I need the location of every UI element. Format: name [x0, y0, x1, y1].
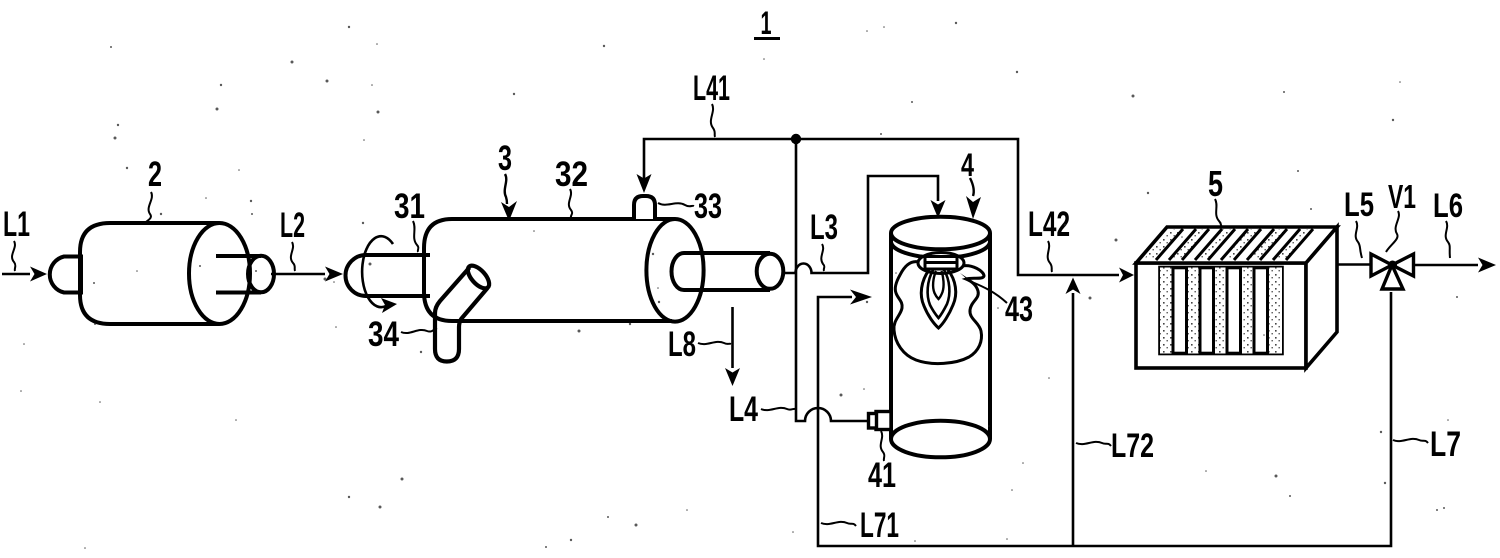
converter 3 outlet pipe: [671, 253, 783, 290]
svg-text:L3: L3: [810, 208, 838, 247]
flame holder blob: [894, 261, 984, 364]
label L6: [1433, 187, 1463, 258]
burner 4: [891, 217, 990, 458]
svg-text:33: 33: [694, 187, 722, 226]
svg-text:32: 32: [555, 155, 588, 194]
svg-text:L8: L8: [668, 325, 696, 364]
svg-text:L7: L7: [1430, 425, 1461, 464]
wire L6 outlet arrow: [1414, 264, 1479, 267]
svg-text:L41: L41: [693, 69, 730, 108]
label 4: [961, 147, 981, 219]
svg-text:L4: L4: [729, 390, 758, 429]
flame middle: [928, 270, 950, 318]
label L2: [280, 206, 305, 271]
filter 5 channel shading front: [1160, 268, 1282, 354]
svg-text:L42: L42: [1028, 205, 1070, 244]
label L1: [3, 205, 30, 271]
label L4: [729, 390, 796, 429]
filter 5 box: [1136, 227, 1337, 368]
label V1: [1386, 178, 1416, 252]
arrow into filter 5: [1119, 268, 1134, 283]
wire L2 arrow: [271, 273, 325, 276]
label 33: [658, 187, 722, 226]
junction node on L41: [791, 134, 801, 144]
svg-text:L71: L71: [860, 506, 899, 545]
wire L8 down arrow: [731, 307, 734, 368]
svg-text:31: 31: [394, 187, 425, 226]
filter 5 channel shading top: [1143, 229, 1313, 260]
svg-text:34: 34: [368, 315, 399, 354]
wire L72 branch up into L42: [1072, 293, 1075, 546]
label L41: [693, 69, 730, 137]
wire L3: outlet to burner top, hop over vertical: [783, 176, 938, 273]
label 43 with leader: [960, 273, 1033, 329]
arrow into burner top: [931, 200, 946, 218]
svg-text:L6: L6: [1433, 187, 1463, 225]
label L71: [821, 506, 899, 545]
filter 5 channels top: [1156, 229, 1313, 260]
converter 3 body: [424, 219, 704, 322]
label L7: [1393, 425, 1461, 464]
converter 3 inlet pipe 31: [346, 255, 431, 296]
label 2: [146, 155, 162, 222]
svg-text:V1: V1: [1388, 178, 1416, 215]
svg-text:L2: L2: [280, 206, 305, 245]
label L72: [1076, 427, 1154, 465]
wire L1 inlet arrow: [2, 273, 30, 276]
wire from junction down to L4 run, hop over L71: [796, 139, 869, 421]
svg-text:4: 4: [961, 147, 974, 183]
flame 43 outer: [921, 270, 955, 328]
flame inner: [933, 271, 944, 299]
label 34: [368, 315, 437, 354]
label L3: [810, 208, 838, 271]
filter 5 channels front: [1173, 268, 1268, 354]
label 32: [555, 155, 588, 218]
svg-text:41: 41: [868, 456, 896, 495]
svg-text:L5: L5: [1344, 186, 1374, 224]
svg-text:2: 2: [148, 155, 162, 194]
label 31: [394, 187, 425, 252]
title 1: [754, 5, 780, 41]
svg-text:L72: L72: [1111, 427, 1154, 465]
svg-text:1: 1: [761, 5, 772, 41]
arrow into 33: [637, 174, 652, 193]
injector stub 33: [634, 196, 655, 219]
label 41: [868, 431, 896, 495]
svg-text:5: 5: [1208, 163, 1223, 204]
svg-text:3: 3: [498, 139, 512, 178]
burner nozzle 43: [918, 253, 964, 274]
valve V1: [1371, 254, 1414, 289]
label L8: [668, 325, 731, 364]
label 3: [498, 139, 517, 221]
label L42: [1028, 205, 1070, 272]
swirl arrow on 31: [362, 236, 393, 307]
wire L5: [1337, 263, 1371, 266]
EGR elbow 34: [435, 262, 493, 361]
svg-text:L1: L1: [3, 205, 30, 244]
wire L41 top run: [644, 139, 1119, 275]
engine 2 body: [50, 223, 274, 324]
wire L71: bottom loop up to burner, arrow: [818, 292, 1391, 546]
svg-text:43: 43: [1005, 290, 1033, 329]
label L5: [1344, 186, 1374, 258]
burner fuel stub 41: [869, 412, 892, 430]
label 5: [1208, 163, 1223, 227]
